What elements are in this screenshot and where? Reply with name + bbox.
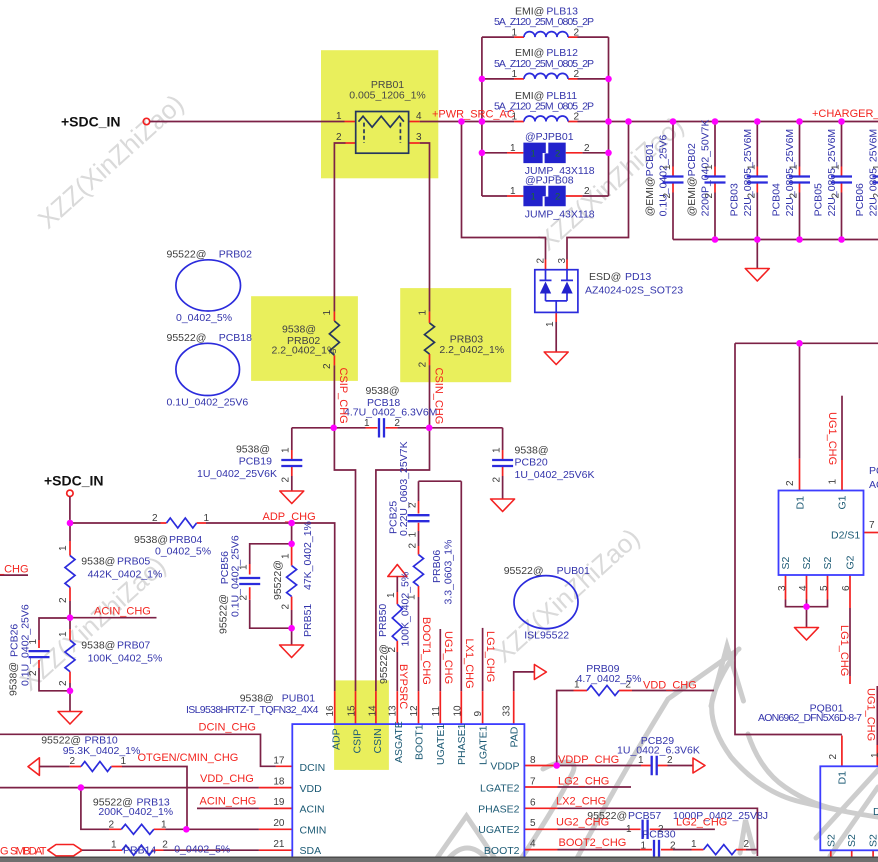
svg-text:AZ4024-02S_SOT23: AZ4024-02S_SOT23 [585,285,683,297]
svg-text:1: 1 [531,192,536,203]
svg-text:1: 1 [239,564,250,570]
wire EMI group left vertical [481,37,483,196]
svg-text:1: 1 [626,824,632,835]
wire capacitor bank ground rail [673,239,878,241]
svg-text:UGATE1: UGATE1 [435,724,447,765]
wire +SDC_IN drop [69,497,71,524]
svg-text:LG2_CHG: LG2_CHG [558,776,609,788]
svg-text:18: 18 [273,776,285,787]
svg-text:0.1U_0402_25V6: 0.1U_0402_25V6 [658,135,670,217]
svg-text:1: 1 [828,479,839,485]
svg-text:1: 1 [408,532,419,538]
window bottom bar [0,857,878,859]
svg-text:2: 2 [239,595,250,601]
wire PQB01 G1 UG1_CHG [876,686,878,745]
svg-text:D1: D1 [837,771,849,785]
wire PRB09 branch VDD_CHG [557,691,714,766]
svg-text:PRB02: PRB02 [219,249,252,261]
svg-text:0.1U_0402_25V6: 0.1U_0402_25V6 [230,535,242,617]
capacitor PCB56 [218,535,261,634]
wire PQB01 D1 pin2 [841,736,843,767]
svg-text:PCB19: PCB19 [239,456,272,468]
svg-text:AON6962_DFN5X6D-8-7: AON6962_DFN5X6D-8-7 [869,479,878,491]
svg-text:UGATE2: UGATE2 [478,824,519,836]
svg-text:2: 2 [322,363,333,369]
wire CSIP pin15 stub [355,691,357,724]
svg-text:2: 2 [584,186,590,197]
svg-text:BYPSRC: BYPSRC [397,664,409,709]
svg-text:2: 2 [152,513,158,524]
svg-text:1: 1 [492,447,503,453]
svg-text:S2: S2 [801,556,813,569]
svg-text:6: 6 [841,585,852,591]
svg-text:2: 2 [281,477,292,483]
resistor PRB50 [377,572,412,684]
svg-text:1: 1 [510,186,516,197]
svg-text:+SDC_IN: +SDC_IN [61,114,121,130]
svg-text:1: 1 [870,752,878,758]
capacitor PCB02 [686,119,726,216]
svg-text:2.2_0402_1%: 2.2_0402_1% [439,344,504,356]
svg-text:G2: G2 [845,555,857,569]
svg-text:G1: G1 [837,495,849,509]
wire bus left drop to ESD pin2 [462,122,546,260]
svg-text:442K_0402_1%: 442K_0402_1% [88,569,163,581]
svg-text:20: 20 [273,818,285,829]
resistor (BOOT2 series) [691,839,750,855]
svg-text:1: 1 [111,839,117,850]
ESD diode PD13 [535,258,683,328]
highlight box PRB01 [321,50,438,178]
wire CSIN pin14 stub [375,691,377,724]
wire pin4 stub PRB01 [409,121,420,123]
capacitor PCB18 (series sense) [344,385,437,438]
wire ACIN_CHG row [70,617,157,619]
svg-text:1U_0402_6.3V6K: 1U_0402_6.3V6K [617,745,700,757]
svg-text:PCB04: PCB04 [771,183,783,216]
svg-text:@EMI@PCB01: @EMI@PCB01 [644,143,656,216]
wire ADP pin16 stub [334,691,336,724]
svg-text:2: 2 [280,604,291,610]
svg-text:2: 2 [492,477,503,483]
highlight box PRB03 [400,288,511,382]
svg-text:2: 2 [574,27,580,38]
svg-text:VDD: VDD [300,783,323,795]
svg-text:PCB18: PCB18 [219,332,252,344]
svg-text:2: 2 [408,543,419,549]
svg-text:4: 4 [416,111,422,122]
svg-text:ISL95522: ISL95522 [524,630,569,642]
power arrow VDDP to PCB29 [693,758,705,773]
svg-text:3: 3 [777,585,788,591]
svg-text:95522@: 95522@ [218,594,230,634]
net labels (vertical) [337,368,877,742]
capacitor PCB03 [728,129,768,217]
svg-text:PRB50: PRB50 [377,604,389,637]
svg-text:22U_0805_25V6M: 22U_0805_25V6M [784,129,796,217]
svg-text:1: 1 [161,820,167,831]
svg-text:15: 15 [347,705,358,717]
wire pin12 column through PCB25 and PRB06 [418,501,420,597]
wire pin13 column through PRB50 [396,577,398,692]
svg-text:PD13: PD13 [625,271,651,283]
svg-text:2: 2 [574,69,580,80]
svg-text:0.005_1206_1%: 0.005_1206_1% [349,90,426,102]
wire capacitor bank columns PCB01-PCB06 [673,122,878,240]
svg-text:ACIN_CHG: ACIN_CHG [200,796,257,808]
svg-text:17: 17 [273,756,285,767]
wire PCB56 branch [250,523,292,628]
svg-text:PRB14: PRB14 [123,845,156,857]
wire PRB01 pin2 to CSIP column [346,142,356,144]
wire PCB20 column to ground [502,428,504,499]
watermark logo strokes [437,646,878,862]
svg-text:33: 33 [502,705,513,717]
svg-text:95522@: 95522@ [167,249,207,261]
svg-text:CSIP_CHG: CSIP_CHG [337,368,349,424]
svg-text:2: 2 [831,193,842,199]
svg-text:CMIN: CMIN [300,824,327,836]
ground PCB20 [491,499,515,512]
component ellipse PUB01 ISL95522 [504,565,590,642]
svg-text:S2: S2 [825,834,837,847]
svg-text:PRB51: PRB51 [302,604,314,637]
svg-text:PRB05: PRB05 [117,556,150,568]
svg-text:+SDC_IN: +SDC_IN [44,473,104,489]
wire pin1 stub PRB01 [345,121,356,123]
wire CSIN column through PRB03 [429,312,431,365]
wire PQB02 S2 pins to ground [786,575,828,600]
svg-text:BOOT1: BOOT1 [413,724,425,760]
svg-text:2: 2 [162,839,168,850]
svg-text:4.7_0402_5%: 4.7_0402_5% [577,673,642,685]
wire ADP_CHG row through PRB04 [70,523,335,691]
svg-text:16: 16 [325,705,336,717]
wire PCB19 column to ground [291,428,293,491]
jumper PJPB08 [510,174,595,220]
capacitor PCB05 [813,129,853,217]
svg-text:PCB30: PCB30 [642,829,675,841]
svg-text:PAD: PAD [508,726,520,747]
svg-text:1: 1 [691,839,697,850]
wire CSIP column through PRB02 [333,312,335,366]
svg-text:LGATE1: LGATE1 [477,725,489,765]
svg-text:1: 1 [662,164,673,170]
svg-text:@PJPB01: @PJPB01 [525,131,574,143]
svg-text:D1: D1 [794,496,806,510]
svg-text:1: 1 [336,111,342,122]
svg-text:CSIN_CHG: CSIN_CHG [433,368,445,425]
highlight box PRB02 [251,296,358,381]
svg-text:S2: S2 [780,556,792,569]
wire PJPB01 row [482,152,609,154]
wire SDA row through PRB14 [82,849,259,851]
svg-text:LX1_CHG: LX1_CHG [463,639,475,689]
svg-text:VDD_CHG: VDD_CHG [643,680,697,692]
svg-text:1: 1 [531,149,536,160]
svg-text:1: 1 [364,418,370,429]
svg-text:9538@: 9538@ [366,385,400,397]
svg-text:9538@: 9538@ [236,444,270,456]
svg-text:7: 7 [530,776,536,787]
svg-text:1: 1 [510,143,516,154]
svg-text:2: 2 [109,820,115,831]
resistor PRB05 [58,545,162,603]
svg-text:1: 1 [386,592,397,598]
resistor PRB04 [134,513,211,558]
svg-text:3: 3 [557,258,568,264]
svg-text:95522@: 95522@ [272,560,284,600]
svg-text:0_0402_5%: 0_0402_5% [176,312,232,324]
wire PQB02 G2 LG1_CHG [849,575,851,684]
svg-text:LG1_CHG: LG1_CHG [484,631,496,682]
svg-text:9: 9 [473,711,484,717]
wire pin10 column LX1_CHG [460,481,462,691]
svg-text:2.2_0402_1%: 2.2_0402_1% [272,344,337,356]
wire PCB26 branch [39,618,70,691]
jumper PJPB01 [510,131,595,177]
wire PRB01 pin3 to CSIN column [409,142,420,144]
svg-text:D2/S1: D2/S1 [873,806,878,818]
ground PRB51 [280,645,304,658]
resistor PRB10 [41,735,140,772]
svg-text:2: 2 [574,112,580,123]
resistor PRB51 [272,521,314,637]
svg-text:14: 14 [368,705,379,717]
svg-text:2: 2 [670,841,676,852]
capacitor PCB30 [641,829,677,860]
svg-text:22U_0805_25V6M: 22U_0805_25V6M [742,129,754,217]
svg-text:2: 2 [785,480,796,486]
svg-text:2: 2 [418,361,429,367]
svg-text:1: 1 [638,755,644,766]
wire ACIN_CHG stub to pin19 [197,807,259,809]
svg-text:22U_0805_25V6M: 22U_0805_25V6M [826,129,838,217]
svg-text:4.7U_0402_6.3V6M: 4.7U_0402_6.3V6M [344,407,437,419]
svg-text:1: 1 [641,841,647,852]
svg-text:PHASE1: PHASE1 [456,723,468,765]
svg-text:LX2_CHG: LX2_CHG [556,796,606,808]
svg-text:+CHARGER_SRC: +CHARGER_SRC [812,108,878,120]
svg-text:0_0402_5%: 0_0402_5% [155,546,211,558]
svg-text:3.3_0603_1%: 3.3_0603_1% [443,540,455,605]
svg-text:S2: S2 [822,556,834,569]
svg-text:1: 1 [746,164,757,170]
wire ESD pin1 to ground [555,312,557,322]
svg-text:2: 2 [536,258,547,264]
svg-text:1: 1 [704,164,715,170]
wire DCIN_CHG row to pin17 [0,734,276,766]
svg-text:SMBDAT: SMBDAT [10,846,47,858]
wire PJPB08 row [482,195,609,197]
svg-text:95.3K_0402_1%: 95.3K_0402_1% [63,745,141,757]
svg-text:2: 2 [28,670,39,676]
svg-text:2: 2 [744,839,750,850]
svg-text:2: 2 [408,502,419,508]
svg-text:9538@: 9538@ [282,324,316,336]
wire pin11 column UG1_CHG [439,629,441,691]
wire OTGEN/CMIN_CHG row through PRB10 [39,767,187,830]
svg-text:ISL9538HRTZ-T_TQFN32_4X4: ISL9538HRTZ-T_TQFN32_4X4 [186,704,319,716]
svg-text:19: 19 [273,797,285,808]
svg-text:ESD@: ESD@ [589,271,621,283]
wire PCB25/PRB06 boot strap bridge [419,481,462,501]
node +SDC_IN terminal (top) [143,118,149,124]
svg-text:1: 1 [512,69,518,80]
svg-text:+PWR_SRC_AC: +PWR_SRC_AC [432,109,515,121]
capacitor PCB20 [492,445,595,483]
svg-text:1U_0402_25V6K: 1U_0402_25V6K [197,468,277,480]
svg-text:8: 8 [530,755,536,766]
svg-text:LGATE2: LGATE2 [480,782,520,794]
capacitor PCB06 [854,129,878,217]
svg-text:PQB02: PQB02 [869,465,878,477]
ground ESD [544,352,568,365]
wire pin33 PAD to arrow [514,672,535,691]
svg-text:2: 2 [789,193,800,199]
svg-text:PRB07: PRB07 [117,640,150,652]
svg-text:1: 1 [281,447,292,453]
svg-text:JUMP_43X118: JUMP_43X118 [525,208,595,220]
svg-text:LG2_CHG: LG2_CHG [676,817,727,829]
resistor PRB14 [111,839,230,856]
node +SDC_IN terminal (lower) [67,490,73,496]
wire PRB05 column [69,523,71,541]
svg-text:2: 2 [555,192,560,203]
svg-text:LG1_CHG: LG1_CHG [838,625,850,676]
wire BOOT2_CHG row pin4 through PCB30 [524,849,746,851]
svg-text:PCB03: PCB03 [728,183,740,216]
node SMBDAT off-page hexagon [48,845,82,856]
wire PRB51 column [291,546,293,610]
svg-text:1: 1 [58,631,69,637]
svg-text:G: G [0,846,9,858]
svg-text:AON6962_DFN5X6D-8-7: AON6962_DFN5X6D-8-7 [758,712,862,724]
svg-text:1: 1 [418,310,429,316]
capacitor PCB29 [617,735,700,775]
svg-text:2: 2 [555,149,560,160]
svg-text:2: 2 [667,755,673,766]
svg-text:XZZ(XinZhiZao): XZZ(XinZhiZao) [488,522,645,668]
wire sense capacitor row PCB18 [292,427,503,429]
svg-text:5: 5 [819,585,830,591]
svg-text:1: 1 [58,545,69,551]
wire UG2_CHG row pin5 through PCB57 [524,828,660,830]
resistor PRB09 [574,663,641,696]
svg-text:2: 2 [336,132,342,143]
svg-text:0.1U_0402_25V6: 0.1U_0402_25V6 [167,397,249,409]
svg-text:1: 1 [831,164,842,170]
resistor PRB02 [272,310,340,370]
resistor PRB03 [418,310,505,368]
svg-text:2: 2 [58,680,69,686]
IC U1 PUB01 ISL9538 [186,692,536,862]
wire +CHARGER_SRC branch right [735,343,878,734]
wire PRB07 column [69,618,71,629]
svg-text:12: 12 [409,705,420,717]
svg-text:BOOT1_CHG: BOOT1_CHG [420,617,432,685]
svg-text:0_0402_5%: 0_0402_5% [174,844,230,856]
svg-text:@EMI@PCB02: @EMI@PCB02 [686,143,698,216]
svg-text:PCB20: PCB20 [515,457,548,469]
capacitor PCB25 [388,441,430,537]
svg-text:1: 1 [280,553,291,559]
svg-text:1: 1 [28,639,39,645]
svg-text:VDD_CHG: VDD_CHG [200,773,254,785]
svg-text:S2: S2 [846,834,858,847]
svg-text:PRB06: PRB06 [431,550,443,583]
svg-text:3: 3 [416,132,422,143]
svg-text:1U_0402_25V6K: 1U_0402_25V6K [515,469,595,481]
power arrow OTGEN (left) [28,758,39,776]
inductor PLB11 [494,90,594,123]
wire UG1_CHG to PQB02 G1 [841,396,843,460]
wire PRB13 branch row [81,788,259,830]
svg-text:VDDP_CHG: VDDP_CHG [558,754,619,766]
svg-text:1: 1 [872,164,878,170]
wire PQB02 D2/S1 pin7 stub [864,532,878,534]
svg-text:47K_0402_1%: 47K_0402_1% [302,521,314,590]
svg-text:11: 11 [431,706,442,717]
component ellipse PRB02 (95522 alt) [167,249,253,325]
capacitor PCB57 [587,810,768,839]
svg-text:22U_0805_25V6M: 22U_0805_25V6M [868,129,878,217]
resistor PRB07 [58,631,162,686]
svg-text:200K_0402_1%: 200K_0402_1% [98,806,173,818]
wire VDDP_CHG row pin8 [524,765,667,767]
resistor PRB13 [93,797,173,835]
wire ESD pin stubs [546,260,568,271]
svg-text:PRB04: PRB04 [169,534,202,546]
wire +SDC_IN to PRB01 pin1 [150,121,345,123]
ground PQB02 source [795,628,819,641]
wire EMI group right vertical [608,37,610,196]
svg-text:9538@: 9538@ [81,640,115,652]
svg-text:9538@: 9538@ [81,556,115,568]
wire VDD_CHG row to pin18 [0,787,259,789]
wire PLB12 row [482,78,609,80]
svg-text:95522@: 95522@ [378,644,390,684]
svg-text:1: 1 [322,310,333,316]
svg-text:1: 1 [512,27,518,38]
svg-text:PCB57: PCB57 [628,810,661,822]
svg-text:ACIN: ACIN [300,804,325,816]
resistor PRB06 [407,540,455,605]
svg-text:SDA: SDA [300,845,322,857]
svg-text:ADP: ADP [330,728,342,750]
wire left edge net stub [0,574,28,576]
capacitor PCB26 [8,604,50,696]
svg-text:2: 2 [662,193,673,199]
svg-text:UG1_CHG: UG1_CHG [865,688,877,741]
power arrow BYPSRC [388,565,407,577]
svg-text:@PJPB08: @PJPB08 [525,174,574,186]
svg-text:UG1_CHG: UG1_CHG [442,631,454,684]
ground capacitor bank [745,269,769,282]
svg-text:PUB01: PUB01 [557,565,590,577]
svg-text:UG2_CHG: UG2_CHG [556,817,609,829]
svg-text:9538@: 9538@ [134,534,168,546]
capacitor PCB19 [197,444,302,483]
svg-text:2: 2 [584,143,590,154]
svg-text:2: 2 [828,754,839,760]
svg-text:9538@: 9538@ [515,445,549,457]
svg-text:9538@: 9538@ [240,692,274,704]
wire PQB02 D1 pin stub [799,459,801,491]
svg-text:UG1_CHG: UG1_CHG [826,412,838,465]
svg-text:1: 1 [789,164,800,170]
svg-text:95522@: 95522@ [504,565,544,577]
